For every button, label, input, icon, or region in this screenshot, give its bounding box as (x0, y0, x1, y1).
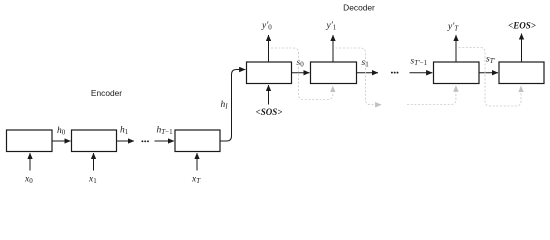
output arrow y'0 (268, 35, 270, 62)
output arrow y'1 (332, 35, 334, 62)
svg-text:<EOS>: <EOS> (508, 21, 536, 31)
decoder block D1 (247, 62, 292, 84)
svg-text:Encoder: Encoder (91, 88, 122, 98)
wire s1 D2 to dots (357, 72, 379, 74)
wire h1 E2 to dots (117, 140, 135, 142)
encoder block E3 (175, 130, 220, 152)
feedback wire y'1 to dots (336, 48, 382, 105)
output arrow EOS (521, 34, 523, 63)
output arrow y'T (455, 35, 457, 62)
decoder ellipsis (391, 72, 399, 74)
wire sT'-1 dots to D3 (410, 72, 433, 74)
encoder ellipsis (141, 140, 149, 142)
svg-text:sT′: sT′ (486, 55, 496, 66)
input arrow xT (196, 153, 198, 171)
svg-text:hT−1: hT−1 (157, 126, 174, 137)
encoder block E1 (7, 130, 53, 152)
decoder block D4 (499, 62, 544, 84)
svg-text:xT: xT (191, 175, 201, 186)
svg-text:sT′−1: sT′−1 (411, 57, 428, 68)
input arrow x1 (93, 153, 95, 171)
svg-text:h0: h0 (57, 126, 66, 137)
input arrow SOS (268, 85, 270, 105)
feedback wire dots to D3 (407, 86, 456, 105)
svg-text:x0: x0 (24, 175, 33, 186)
wire s0 D1 to D2 (292, 72, 310, 74)
svg-text:s0: s0 (297, 58, 305, 69)
svg-text:h1: h1 (120, 126, 129, 137)
svg-text:s1: s1 (362, 58, 370, 69)
feedback wire y'0 to D2 (271, 48, 333, 100)
wire sT' D3 to D4 (479, 72, 498, 74)
svg-text:y′1: y′1 (326, 21, 337, 32)
svg-text:Decoder: Decoder (343, 3, 375, 13)
input arrow x0 (29, 153, 31, 171)
svg-text:x1: x1 (88, 175, 97, 186)
wire hI E3 to D1 (220, 70, 245, 142)
svg-text:y′0: y′0 (261, 21, 272, 32)
feedback wire y'T to D4 (459, 48, 522, 107)
decoder block D2 (311, 62, 357, 84)
wire hT-1 dots to E3 (155, 140, 175, 142)
wire h0 E1 to E2 (52, 140, 71, 142)
encoder block E2 (72, 130, 117, 152)
svg-text:y′T: y′T (447, 22, 459, 33)
svg-text:<SOS>: <SOS> (256, 107, 283, 117)
svg-text:hI: hI (221, 100, 229, 111)
decoder block D3 (434, 62, 480, 84)
